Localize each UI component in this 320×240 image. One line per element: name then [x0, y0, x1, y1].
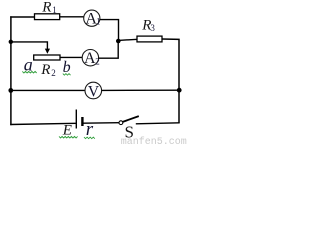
battery E r: [76, 110, 82, 129]
svg-text:3: 3: [150, 23, 155, 33]
wire node B to R3: [118, 39, 137, 40]
node B junction dot: [116, 39, 121, 44]
resistor R3: [137, 36, 162, 42]
label E: [62, 122, 72, 138]
wire bottom-left to battery: [10, 123, 76, 124]
wire A1 to node B: [100, 20, 119, 41]
svg-text:A: A: [84, 50, 96, 67]
resistor R1: [35, 14, 60, 20]
wire wiper branch with arrow: [11, 42, 50, 54]
label R1: [41, 0, 57, 15]
svg-text:V: V: [88, 83, 100, 100]
label b: [63, 59, 71, 76]
label a: [24, 54, 33, 74]
svg-text:2: 2: [51, 68, 56, 78]
wire left vertical bus: [10, 16, 12, 125]
wire voltmeter to node D: [102, 89, 179, 91]
label R3: [141, 18, 155, 34]
wire switch to right bus: [136, 123, 180, 124]
svg-text:manfen5.com: manfen5.com: [121, 136, 187, 145]
label R2: [40, 62, 56, 78]
svg-text:1: 1: [96, 17, 101, 27]
ammeter A2: [82, 50, 99, 68]
svg-text:R: R: [41, 0, 51, 15]
wire top-left horizontal: [10, 16, 35, 18]
wire R3 to right vertical bus: [162, 39, 179, 123]
wire R1 to A1: [60, 16, 84, 18]
label r: [86, 119, 94, 140]
wire battery to switch: [83, 122, 119, 125]
spellcheck squiggle under a: [22, 71, 36, 73]
wire R2 to A2: [60, 56, 83, 58]
label S: [125, 123, 134, 142]
ammeter A1: [84, 10, 101, 27]
spellcheck squiggle under b: [63, 74, 71, 76]
voltmeter V: [85, 82, 102, 100]
wire A2 to node B: [98, 42, 118, 58]
spellcheck squiggle under E: [59, 136, 78, 138]
watermark manfen5.com: [121, 136, 187, 148]
node C junction dot (left, voltmeter tap): [8, 88, 13, 93]
svg-text:R: R: [40, 62, 50, 78]
rheostat R2: [34, 55, 60, 60]
svg-text:E: E: [62, 122, 72, 138]
svg-text:1: 1: [52, 5, 57, 15]
spellcheck squiggle under r: [84, 137, 95, 139]
switch S: [119, 116, 139, 125]
wire node C to voltmeter: [11, 89, 85, 91]
node D junction dot (right bus): [177, 88, 182, 93]
node A junction dot (left, wiper tap): [9, 40, 13, 44]
